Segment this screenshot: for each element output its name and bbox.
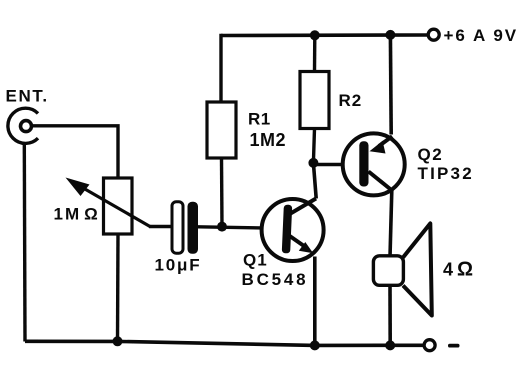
- node junction Q1 emitter / bottom rail: [310, 340, 320, 350]
- svg-text:TIP32: TIP32: [418, 164, 474, 183]
- svg-text:BC548: BC548: [242, 270, 309, 289]
- wire R1 bottom lead: [220, 158, 224, 227]
- svg-text:+6 A 9V: +6 A 9V: [444, 26, 519, 45]
- svg-text:1M2: 1M2: [250, 130, 287, 150]
- wire bottom rail: [25, 341, 424, 345]
- svg-text:R1: R1: [248, 110, 271, 129]
- capacitor C1 10uF: [172, 202, 198, 254]
- wire jack to pot top: [32, 126, 119, 178]
- wire capacitor to Q1 base: [198, 227, 284, 229]
- wire junction to Q2 base: [313, 163, 360, 167]
- label minus: [448, 344, 460, 348]
- node junction R2/Q1 collector/Q2 base: [308, 158, 318, 168]
- wire Q1 collector to junction: [313, 163, 316, 199]
- resistor R1: [207, 102, 236, 158]
- svg-text:10μF: 10μF: [155, 256, 202, 275]
- speaker LS1 4 ohm: [373, 223, 431, 315]
- wire wiper to capacitor: [149, 225, 172, 228]
- wire top rail: [221, 33, 427, 37]
- transistor Q1 BC548: [262, 199, 324, 262]
- svg-text:1MΩ: 1MΩ: [54, 205, 100, 224]
- wire Q2 collector to speaker: [390, 191, 392, 258]
- label Q1 BC548: [242, 251, 309, 290]
- transistor Q2 TIP32: [343, 133, 405, 195]
- svg-text:Q2: Q2: [418, 145, 444, 164]
- wire R1 top lead: [219, 34, 222, 102]
- svg-text:4Ω: 4Ω: [443, 259, 474, 281]
- terminal positive supply: [428, 29, 439, 40]
- wire R2 top lead: [313, 35, 317, 71]
- node junction cap/R1/base: [217, 222, 227, 232]
- node junction R2 / top rail: [310, 30, 320, 40]
- wire Q2 emitter up: [389, 35, 393, 135]
- wire left rail down: [23, 142, 27, 342]
- svg-text:Q1: Q1: [243, 251, 268, 270]
- svg-text:R2: R2: [339, 91, 363, 110]
- potentiometer P1 1M: [66, 178, 151, 235]
- node junction speaker / bottom rail: [385, 340, 395, 350]
- wire speaker to bottom rail: [388, 285, 392, 345]
- svg-text:ENT.: ENT.: [6, 87, 49, 106]
- terminal negative: [424, 340, 435, 351]
- resistor R2: [300, 72, 329, 129]
- node junction pot / bottom rail: [113, 336, 123, 346]
- label R1 value 1M2: [248, 110, 286, 151]
- wire pot bottom lead: [116, 234, 120, 341]
- wire R2 bottom lead: [313, 129, 314, 164]
- wire Q1 emitter down: [313, 257, 317, 346]
- label Q2 TIP32: [418, 145, 474, 183]
- node junction Q2 emitter / top rail: [385, 30, 395, 40]
- input jack J1 ENT.: [8, 108, 38, 143]
